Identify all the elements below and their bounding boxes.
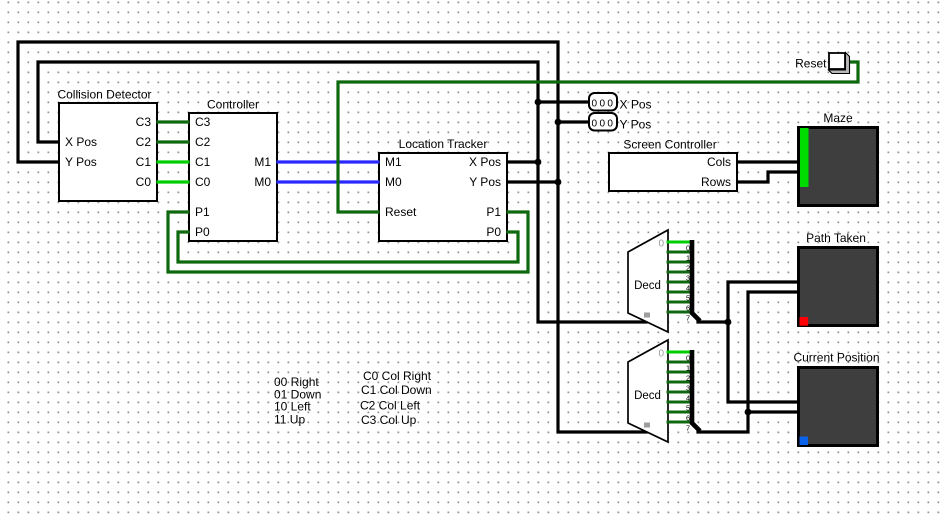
- svg-text:Path Taken: Path Taken: [806, 231, 866, 245]
- splitter SP 1 spine: [686, 240, 700, 322]
- lit blue pixel in Current Position display: [800, 437, 809, 446]
- splitter SP 2 spine: [686, 350, 700, 432]
- svg-text:1: 1: [686, 363, 690, 372]
- wire decoder 1 output 3 stub: [668, 271, 690, 274]
- wire C2 net (logic 0, dark green): [158, 140, 188, 143]
- svg-text:0: 0: [686, 353, 690, 362]
- svg-text:M0: M0: [254, 175, 271, 189]
- subcircuit box Location Tracker: [379, 137, 507, 241]
- svg-text:Location Tracker: Location Tracker: [399, 137, 488, 151]
- svg-text:X Pos: X Pos: [469, 155, 501, 169]
- wire branch from Location Tracker X Pos output: [508, 160, 538, 163]
- svg-text:0: 0: [659, 349, 665, 360]
- svg-text:0: 0: [686, 243, 690, 252]
- wire net X Pos bus: Collision Detector X Pos input, left riser x=38, top run y=62, down x=538 to decoder 1 select: [38, 62, 646, 322]
- wire decoder 2 output 0 stub: [668, 351, 690, 354]
- svg-text:6: 6: [686, 303, 690, 312]
- svg-text:Decd: Decd: [634, 390, 661, 402]
- wire M0 net (floating, blue): [278, 180, 378, 183]
- svg-text:10 Left: 10 Left: [274, 399, 311, 413]
- svg-text:C0: C0: [195, 175, 211, 189]
- junction at (538,162): [535, 159, 542, 166]
- junction at (748,412): [745, 409, 752, 416]
- wire decoder 2 output 6 stub: [668, 411, 690, 414]
- svg-text:3: 3: [686, 383, 690, 392]
- svg-text:5: 5: [686, 293, 690, 302]
- svg-text:C0: C0: [136, 175, 152, 189]
- wire Reset net from button to Location Tracker Reset input (dark green): [338, 62, 858, 212]
- svg-text:Y Pos: Y Pos: [620, 118, 652, 132]
- lit red pixel in Path Taken display: [800, 317, 809, 326]
- svg-text:X Pos: X Pos: [620, 98, 652, 112]
- wire decoder 2 output 4 stub: [668, 391, 690, 394]
- svg-text:P1: P1: [195, 205, 210, 219]
- wire decoder 2 row bus to Path Taken and Current Position: [698, 292, 798, 432]
- svg-text:Screen Controller: Screen Controller: [623, 138, 716, 152]
- svg-text:3: 3: [686, 273, 690, 282]
- svg-text:Collision Detector: Collision Detector: [57, 88, 151, 102]
- svg-text:C1: C1: [195, 155, 211, 169]
- svg-text:P0: P0: [486, 225, 501, 239]
- junction at (728,322): [725, 319, 732, 326]
- wire net Y Pos bus: Collision Detector Y Pos input, left riser x=18, top run y=42, down x=558 to decoder 2 select: [18, 42, 646, 432]
- subcircuit box Collision Detector: [57, 88, 157, 202]
- svg-text:7: 7: [686, 313, 690, 322]
- svg-text:Current Position: Current Position: [793, 351, 879, 365]
- wire decoder 1 output 4 stub: [668, 281, 690, 284]
- svg-text:C2: C2: [136, 135, 152, 149]
- svg-text:4: 4: [686, 283, 690, 292]
- svg-text:C3 Col Up: C3 Col Up: [361, 413, 417, 427]
- wire M1 net (floating, blue): [278, 160, 378, 163]
- wire decoder 1 output 2 stub: [668, 261, 690, 264]
- svg-text:0: 0: [659, 239, 665, 250]
- LED matrix display Path Taken: [799, 231, 878, 326]
- svg-text:11 Up: 11 Up: [274, 412, 305, 426]
- svg-text:P1: P1: [486, 205, 501, 219]
- text note: collision bit meaning: [360, 369, 432, 427]
- wire decoder 1 output 0 stub: [668, 241, 690, 244]
- svg-text:P0: P0: [195, 225, 210, 239]
- svg-text:4: 4: [686, 393, 690, 402]
- svg-text:C1 Col Down: C1 Col Down: [361, 383, 432, 397]
- svg-text:C2: C2: [195, 135, 211, 149]
- svg-text:M1: M1: [385, 155, 402, 169]
- svg-text:Cols: Cols: [707, 155, 731, 169]
- svg-text:C1: C1: [136, 155, 152, 169]
- wire decoder 2 output 5 stub: [668, 401, 690, 404]
- wire C1 net (logic 1, bright green): [158, 160, 188, 163]
- svg-text:000: 000: [592, 119, 616, 130]
- probe Y Pos (3-bit, value 0 0 0): [589, 113, 651, 132]
- svg-text:M1: M1: [254, 155, 271, 169]
- wire decoder 1 output 5 stub: [668, 291, 690, 294]
- svg-text:Maze: Maze: [823, 111, 853, 125]
- svg-text:1: 1: [686, 253, 690, 262]
- svg-text:Reset: Reset: [385, 205, 417, 219]
- wire decoder 2 output 2 stub: [668, 371, 690, 374]
- svg-text:Y Pos: Y Pos: [65, 155, 97, 169]
- svg-text:X Pos: X Pos: [65, 135, 97, 149]
- wire C3 net (logic 0, dark green): [158, 120, 188, 123]
- svg-text:000: 000: [592, 99, 616, 110]
- svg-text:2: 2: [686, 373, 690, 382]
- junction at (558,122): [555, 119, 562, 126]
- svg-text:Y Pos: Y Pos: [469, 175, 501, 189]
- wire decoder 2 output 1 stub: [668, 361, 690, 364]
- decoder U 1 (Decd): [628, 230, 668, 332]
- wire decoder 1 column bus to Path Taken and Current Position: [698, 320, 728, 323]
- svg-text:Controller: Controller: [207, 98, 259, 112]
- svg-text:C3: C3: [195, 115, 211, 129]
- wire decoder 2 output 3 stub: [668, 381, 690, 384]
- subcircuit box Controller: [189, 98, 277, 242]
- LED matrix display Maze: [799, 111, 878, 206]
- wire decoder 2 output 7 stub: [668, 421, 690, 424]
- wire decoder 1 output 6 stub: [668, 301, 690, 304]
- wire P1 net feedback loop (dark green): [168, 212, 528, 272]
- wire branch to X Pos probe: [538, 100, 588, 103]
- lit green column in Maze display: [800, 128, 809, 187]
- svg-text:7: 7: [686, 423, 690, 432]
- subcircuit box Screen Controller: [609, 138, 737, 192]
- svg-text:C3: C3: [136, 115, 152, 129]
- probe X Pos (3-bit, value 0 0 0): [589, 93, 652, 112]
- wire Rows to Maze display: [738, 172, 798, 182]
- wire Cols to Maze display: [738, 160, 798, 163]
- LED matrix display Current Position: [793, 351, 879, 446]
- junction at (558,182): [555, 179, 562, 186]
- svg-text:2: 2: [686, 263, 690, 272]
- svg-text:Reset: Reset: [795, 57, 827, 71]
- svg-text:Decd: Decd: [634, 280, 661, 292]
- decoder U 2 (Decd): [628, 340, 668, 442]
- svg-text:C2 Col Left: C2 Col Left: [360, 399, 421, 413]
- svg-text:Rows: Rows: [701, 175, 731, 189]
- wire branch to Y Pos probe: [558, 120, 588, 123]
- wire decoder 1 output 7 stub: [668, 311, 690, 314]
- text note: movement encoding: [274, 375, 321, 426]
- wire C0 net (logic 1, bright green): [158, 180, 188, 183]
- svg-text:6: 6: [686, 413, 690, 422]
- junction at (538,102): [535, 99, 542, 106]
- wire decoder 1 output 1 stub: [668, 251, 690, 254]
- wire branch from Location Tracker Y Pos output: [508, 180, 558, 183]
- push button Reset: [795, 53, 849, 74]
- svg-text:M0: M0: [385, 175, 402, 189]
- svg-text:C0 Col Right: C0 Col Right: [363, 369, 432, 383]
- wire P0 net feedback loop (dark green): [178, 232, 518, 262]
- svg-text:5: 5: [686, 403, 690, 412]
